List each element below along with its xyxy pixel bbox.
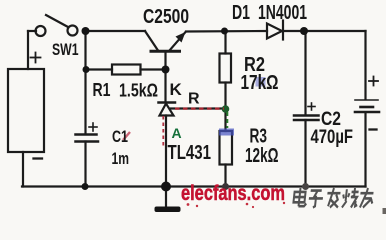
svg-text:1.5kΩ: 1.5kΩ: [119, 81, 158, 101]
svg-text:12kΩ: 12kΩ: [245, 145, 279, 167]
svg-text:R1: R1: [93, 80, 111, 100]
svg-text:1m: 1m: [112, 149, 130, 168]
svg-text:470µF: 470µF: [311, 127, 354, 148]
svg-text:SW1: SW1: [52, 40, 79, 59]
svg-text:TL431: TL431: [168, 142, 212, 164]
svg-text:A: A: [172, 125, 182, 141]
svg-text:elecfans.com: elecfans.com: [181, 182, 285, 205]
svg-text:K: K: [170, 80, 183, 99]
svg-text:1N4001: 1N4001: [258, 2, 307, 24]
svg-text:C1: C1: [112, 127, 128, 146]
svg-text:D1: D1: [232, 2, 250, 24]
svg-text:17kΩ: 17kΩ: [241, 72, 279, 94]
svg-text:C2500: C2500: [143, 6, 189, 28]
svg-text:R: R: [188, 91, 200, 108]
